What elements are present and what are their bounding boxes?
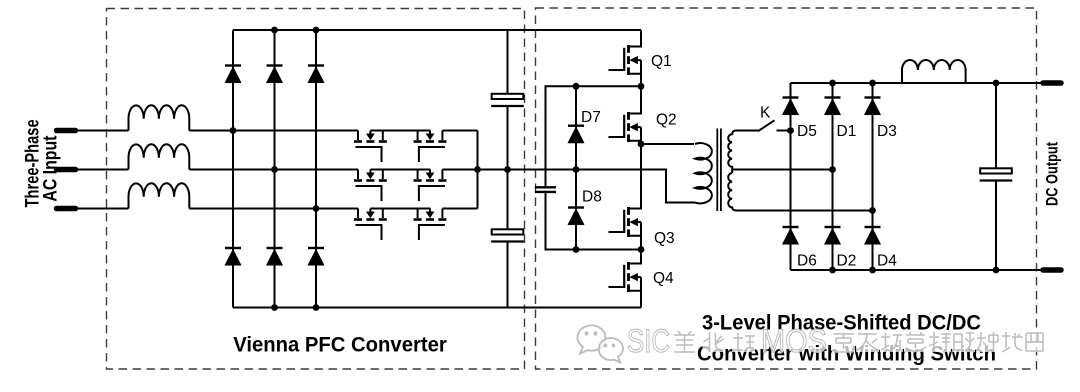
inductor L3 (phase C) bbox=[129, 183, 190, 208]
mosfet matrix row 1 left bbox=[354, 131, 387, 163]
wire: row 2 right drain to output node bbox=[442, 169, 477, 171]
wire: row 3 common source link bbox=[370, 208, 430, 210]
wire: Q3 source to Q4 drain bbox=[640, 237, 642, 264]
wire: output rectifier bottom rail bbox=[791, 269, 1042, 271]
capacitor C2 (lower dc-link) bbox=[491, 229, 524, 241]
svg-text:K: K bbox=[760, 105, 771, 122]
junction: D7 top bbox=[573, 83, 580, 90]
wire: matrix output vertical bbox=[477, 131, 479, 209]
diode D2 bbox=[824, 227, 840, 244]
svg-text:D3: D3 bbox=[877, 123, 897, 140]
junction: D2 bottom rail bbox=[829, 267, 836, 274]
inductor L4 (output filter) bbox=[902, 60, 966, 83]
dashed box: Vienna PFC Converter block bbox=[107, 9, 525, 370]
wire: output cap branch upper bbox=[995, 83, 997, 168]
wire: row 1 common source link bbox=[370, 130, 430, 132]
wire: row 1 right drain to output node bbox=[442, 130, 477, 132]
transformer T1 primary winding bbox=[695, 143, 712, 203]
wire: rectifier branch 1 vertical bbox=[232, 30, 234, 308]
diode D4 bbox=[864, 227, 880, 244]
wire: phase C from terminal to inductor bbox=[76, 208, 129, 210]
wire: phase A from inductor to switch matrix row 1 bbox=[189, 130, 358, 132]
diode top branch 2 bbox=[266, 66, 282, 83]
wire: Q1 source to Q2 drain bbox=[640, 75, 642, 97]
diode bottom branch 1 bbox=[225, 248, 241, 265]
junction: phase A / branch 1 bbox=[230, 127, 237, 134]
wire: secondary bottom lead to D3/D4 bbox=[737, 210, 873, 212]
mosfet matrix row 3 right bbox=[414, 209, 447, 241]
dashed box: DC/DC converter block bbox=[536, 8, 1037, 369]
wire: clamp rail upper (Q1/Q2 node to left rail) bbox=[546, 86, 642, 187]
wire: rectifier branch 2 vertical bbox=[274, 30, 276, 308]
svg-text:SIC: SIC bbox=[627, 323, 670, 359]
terminal: DC output positive bbox=[1043, 80, 1061, 86]
svg-text:Q2: Q2 bbox=[656, 112, 677, 129]
watermark hanzi glyphs bbox=[673, 331, 1046, 352]
wire: Q2 source to transformer primary top bbox=[641, 143, 694, 145]
junction: branch 2 top rail bbox=[271, 27, 278, 34]
wire: dc-link capacitor branch upper bbox=[507, 30, 509, 94]
wire: midpoint link matrix to DC/DC bbox=[478, 170, 696, 203]
transistor Q1 bbox=[609, 30, 642, 90]
wire: rectifier branch D1/D2 bbox=[832, 83, 834, 270]
transformer T1 secondary winding lower bbox=[728, 173, 736, 211]
watermark wechat logo bbox=[578, 325, 623, 362]
wire: output cap branch lower bbox=[995, 181, 997, 271]
wire: row 3 right drain to output node bbox=[442, 208, 477, 210]
wire: switch to D5 tap bbox=[777, 130, 791, 132]
inductor L2 (phase B) bbox=[129, 144, 190, 169]
svg-text:3-Level Phase-Shifted DC/DC: 3-Level Phase-Shifted DC/DC bbox=[702, 311, 981, 335]
wire: phase A from terminal to inductor bbox=[76, 130, 129, 132]
junction: capacitor midpoint bbox=[504, 166, 511, 173]
transistor Q2 bbox=[609, 97, 642, 157]
svg-text:D7: D7 bbox=[581, 109, 601, 126]
wire: secondary top lead to switch bbox=[735, 130, 759, 132]
junction: D3 top rail bbox=[869, 80, 876, 87]
wire: rectifier branch D5/D6 bbox=[790, 83, 792, 270]
diode D1 bbox=[824, 98, 840, 115]
transformer T1 core bbox=[717, 129, 721, 212]
junction: branch 2 bottom rail bbox=[271, 304, 278, 311]
svg-text:Vienna PFC Converter: Vienna PFC Converter bbox=[233, 333, 447, 357]
capacitor C1 (upper dc-link) bbox=[491, 94, 524, 106]
label: Three-Phase AC Input bbox=[23, 119, 62, 207]
mosfet matrix row 2 left bbox=[354, 170, 387, 202]
mosfet matrix row 2 right bbox=[414, 170, 447, 202]
junction: Q1-Q2 node bbox=[638, 83, 645, 90]
junction: output cap bottom bbox=[993, 267, 1000, 274]
svg-text:D1: D1 bbox=[837, 123, 857, 140]
svg-text:Q1: Q1 bbox=[651, 53, 672, 70]
wire: clamp rail lower (left rail to Q3/Q4 node) bbox=[546, 192, 642, 250]
junction: mid tap at D1 branch bbox=[829, 166, 836, 173]
junction: phase B / branch 2 bbox=[271, 166, 278, 173]
transistor Q3 bbox=[609, 192, 642, 252]
diode bottom branch 2 bbox=[266, 248, 282, 265]
wire: C2 bottom to bottom rail bbox=[507, 242, 509, 308]
wire: phase B from inductor to switch matrix row 2 bbox=[189, 169, 358, 171]
terminal: phase A input bbox=[57, 128, 76, 134]
diode bottom branch 3 bbox=[308, 248, 324, 265]
inductor L1 (phase A) bbox=[129, 105, 190, 130]
diode top branch 1 bbox=[225, 66, 241, 83]
diode D8 bbox=[568, 208, 584, 225]
diode D3 bbox=[864, 98, 880, 115]
junction: Q3-Q4 node bbox=[638, 246, 645, 253]
wire: rectifier branch 3 vertical bbox=[315, 30, 317, 308]
capacitor C4 (output) bbox=[980, 168, 1013, 180]
junction: midline D7/D8 tap bbox=[573, 166, 580, 173]
terminal: DC output negative bbox=[1043, 267, 1061, 273]
junction: output cap top bbox=[993, 80, 1000, 87]
capacitor C3 (flying cap) bbox=[535, 187, 556, 192]
junction: Q2 source / primary tap bbox=[638, 141, 645, 148]
svg-text:Q3: Q3 bbox=[654, 230, 675, 247]
junction: branch 3 bottom rail bbox=[313, 304, 320, 311]
svg-text:D5: D5 bbox=[797, 123, 817, 140]
diode D7 bbox=[568, 126, 584, 143]
svg-text:D8: D8 bbox=[582, 189, 602, 206]
junction: D4 bottom rail bbox=[869, 267, 876, 274]
svg-text:MOS: MOS bbox=[761, 323, 827, 359]
wire: clamp diode branch vertical bbox=[575, 86, 577, 249]
diode top branch 3 bbox=[308, 66, 324, 83]
wire: secondary mid tap to D1/D2 bbox=[732, 169, 832, 171]
junction: matrix output node bbox=[474, 166, 481, 173]
wire: row 2 common source link bbox=[370, 169, 430, 171]
transistor Q4 bbox=[609, 247, 642, 307]
svg-text:D2: D2 bbox=[837, 253, 857, 270]
wire: vienna positive top rail bbox=[233, 29, 641, 31]
wire: phase C from inductor to switch matrix row 3 bbox=[189, 208, 358, 210]
wire: vienna negative bottom rail bbox=[233, 307, 641, 309]
svg-text:D4: D4 bbox=[877, 253, 897, 270]
diode D6 bbox=[782, 227, 798, 244]
svg-text:DC Output: DC Output bbox=[1044, 142, 1062, 206]
diode D5 bbox=[782, 98, 798, 115]
transformer T1 secondary winding upper bbox=[728, 131, 736, 174]
wire: C1 bottom to midpoint bbox=[507, 106, 509, 230]
switch K blade bbox=[758, 120, 775, 131]
mosfet matrix row 3 left bbox=[354, 209, 387, 241]
terminal: phase B input bbox=[57, 167, 76, 173]
junction: bottom tap at D3 branch bbox=[869, 207, 876, 214]
wire: phase B from terminal to inductor bbox=[76, 169, 129, 171]
wire: rectifier branch D3/D4 bbox=[872, 83, 874, 270]
wire: Q4 source to bottom rail bbox=[640, 292, 642, 308]
svg-text:D6: D6 bbox=[797, 253, 817, 270]
junction: branch 3 top rail bbox=[313, 27, 320, 34]
junction: D1 top rail bbox=[829, 80, 836, 87]
junction: D8 bottom bbox=[573, 246, 580, 253]
wire: output rectifier top rail bbox=[791, 82, 1042, 84]
svg-text:Q4: Q4 bbox=[653, 270, 674, 287]
wire: Q2 source to Q3 drain bbox=[640, 142, 642, 209]
terminal: phase C input bbox=[57, 206, 76, 212]
mosfet matrix row 1 right bbox=[414, 131, 447, 163]
junction: K line at D5 branch bbox=[787, 127, 794, 134]
junction: phase C / branch 3 bbox=[313, 205, 320, 212]
